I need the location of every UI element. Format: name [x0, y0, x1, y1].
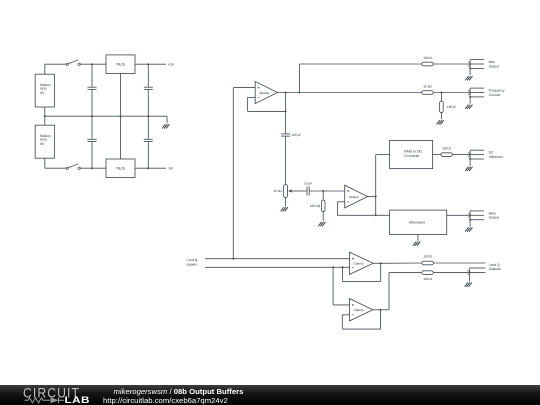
- svg-text:+5V: +5V: [168, 62, 175, 66]
- svg-text:100 Ω: 100 Ω: [442, 147, 451, 151]
- svg-text:79L05: 79L05: [116, 167, 126, 171]
- svg-text:100 Ω: 100 Ω: [447, 105, 456, 109]
- svg-text:Opamp: Opamp: [259, 91, 269, 95]
- svg-text:Max: Max: [489, 60, 496, 64]
- svg-text:Opamp: Opamp: [349, 195, 359, 199]
- svg-text:mikerogerswsm / 08b Output Buf: mikerogerswsm / 08b Output Buffers: [114, 387, 244, 396]
- svg-text:I and Q: I and Q: [187, 258, 198, 262]
- svg-text:Output: Output: [489, 216, 499, 220]
- svg-text:Frequency: Frequency: [489, 89, 505, 93]
- svg-text:100 kΩ: 100 kΩ: [310, 204, 321, 208]
- svg-text:100 μF: 100 μF: [291, 133, 301, 137]
- svg-text:Outputs: Outputs: [489, 267, 501, 271]
- svg-text:Opamp: Opamp: [353, 262, 363, 266]
- svg-text:10 μF: 10 μF: [304, 181, 312, 185]
- svg-text:100 Ω: 100 Ω: [423, 277, 432, 281]
- svg-text:10 kΩ: 10 kΩ: [273, 189, 282, 193]
- svg-text:Converter: Converter: [404, 154, 420, 158]
- svg-text:Attenuator: Attenuator: [409, 221, 426, 225]
- svg-text:LAB: LAB: [65, 395, 91, 405]
- svg-text:Main: Main: [489, 211, 496, 215]
- svg-text:10 kΩ: 10 kΩ: [423, 85, 432, 89]
- svg-text:Counter: Counter: [489, 93, 502, 97]
- svg-text:I and Q: I and Q: [489, 263, 500, 267]
- svg-text:Opamp: Opamp: [353, 308, 363, 312]
- svg-text:signals: signals: [187, 263, 198, 267]
- svg-text:RMS to DC: RMS to DC: [404, 150, 422, 154]
- svg-text:100 Ω: 100 Ω: [423, 255, 432, 259]
- svg-text:78L05: 78L05: [116, 62, 126, 66]
- svg-text:100 Ω: 100 Ω: [423, 56, 432, 60]
- svg-text:http://circuitlab.com/cxeb6a7q: http://circuitlab.com/cxeb6a7qm24v2: [103, 395, 228, 404]
- svg-text:Voltmeter: Voltmeter: [489, 155, 504, 159]
- svg-text:-5V: -5V: [168, 166, 174, 170]
- svg-text:DC: DC: [489, 151, 494, 155]
- svg-text:9V: 9V: [40, 142, 45, 146]
- svg-text:Output: Output: [489, 64, 499, 68]
- svg-text:9V: 9V: [40, 91, 45, 95]
